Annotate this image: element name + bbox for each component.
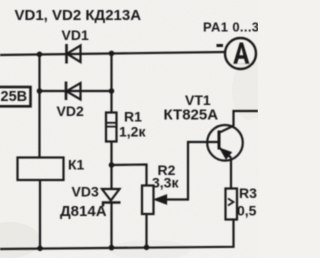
wire VD2 branch [40, 90, 112, 92]
potentiometer R2 [142, 186, 167, 215]
wire node to R2 top [112, 165, 147, 186]
resistor R1 [106, 113, 117, 142]
node VD2 left junction [37, 88, 43, 94]
diode VD2 [66, 82, 81, 101]
node top-right junction [109, 51, 115, 57]
input voltage box 25В [0, 87, 31, 106]
wire bottom rail [0, 219, 234, 249]
node top-left junction [37, 52, 43, 58]
node rail VD3 junction [109, 245, 115, 251]
node rail K1 junction [37, 246, 43, 252]
wire R1 to node [110, 142, 112, 190]
resistor R3 [226, 189, 238, 220]
wire K1 bottom [39, 180, 41, 249]
zener diode VD3 [102, 189, 121, 207]
minus polarity mark [217, 44, 224, 47]
transistor VT1 [207, 125, 243, 161]
wire emitter down [230, 158, 232, 189]
wire right vertical upper [110, 54, 112, 114]
node rail R2 junction [144, 245, 150, 251]
wire collector up and right [234, 111, 259, 126]
wire VD3 to bottom rail [110, 202, 112, 248]
relay coil K1 [18, 158, 64, 181]
wire left vertical [38, 54, 40, 159]
ammeter PA1 [225, 38, 256, 69]
node R2 feed junction [109, 162, 115, 168]
node VD2 right junction [109, 88, 115, 94]
wire R2 bottom [145, 214, 147, 248]
wire top rail [0, 52, 225, 55]
diode VD1 [67, 44, 81, 64]
wire R2 wiper to base [156, 142, 219, 200]
